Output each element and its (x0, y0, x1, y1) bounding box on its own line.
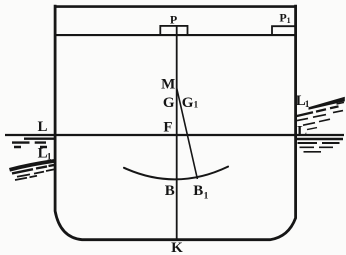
waterline L-L (5, 134, 344, 136)
svg-text:M: M (161, 76, 175, 92)
svg-text:B: B (193, 183, 203, 199)
left water hatching below waterline (12, 139, 54, 147)
right water hatching below waterline (296, 139, 343, 152)
inclined line M-G1-B1 (177, 89, 198, 180)
svg-text:1: 1 (47, 153, 52, 163)
svg-text:G: G (182, 95, 194, 111)
svg-text:B: B (165, 183, 175, 199)
hatch box P (160, 26, 187, 35)
svg-text:K: K (171, 240, 183, 255)
arc of buoyancy through B and B1 (124, 167, 228, 180)
hatch box P1 (272, 26, 295, 35)
hull side and bottom outline (55, 5, 296, 240)
svg-text:P: P (170, 13, 177, 27)
left inclined waterline L1 hatching (10, 161, 55, 180)
svg-text:G: G (163, 95, 175, 111)
svg-text:1: 1 (287, 16, 291, 25)
svg-text:1: 1 (194, 100, 199, 110)
inner deck line (55, 34, 296, 36)
svg-text:F: F (163, 120, 172, 136)
hull top deck line (54, 5, 297, 8)
vertical centerline P-M-G-F-B-K (176, 26, 178, 239)
svg-text:1: 1 (204, 192, 209, 202)
svg-text:1: 1 (305, 100, 310, 110)
svg-text:L: L (297, 124, 307, 140)
svg-text:L: L (37, 119, 47, 135)
right inclined waterline L1 hatching (296, 97, 345, 130)
